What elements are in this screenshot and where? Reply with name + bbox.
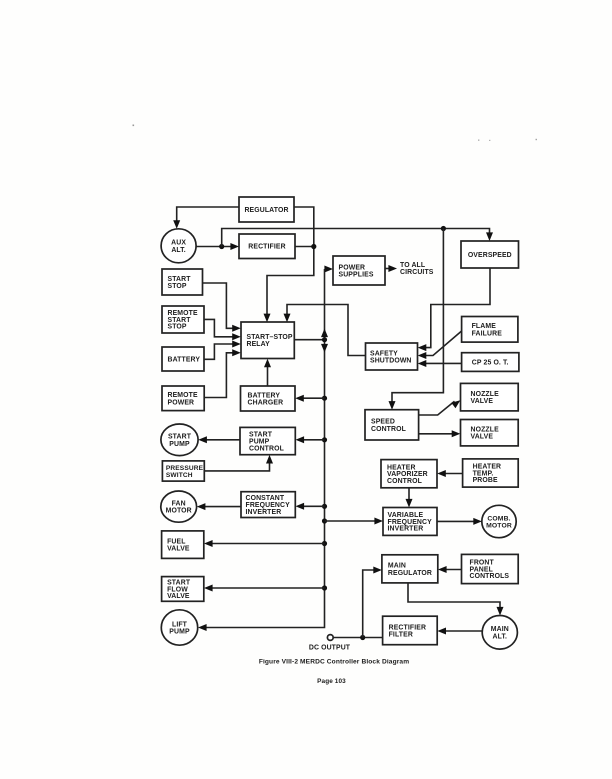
wire bus to battery charger	[298, 397, 325, 399]
block START PUMP CONTROL	[240, 427, 295, 454]
wire ac line to overspeed	[222, 229, 490, 247]
wire heater vaporizer to vfi	[408, 488, 410, 505]
arrow into safety in1	[418, 344, 427, 351]
junction bus-fuel valve junction	[322, 541, 327, 546]
arrow into relay top left	[264, 314, 271, 323]
block MAIN REGULATOR	[382, 555, 438, 583]
svg-text:MOTOR: MOTOR	[486, 522, 512, 529]
arrow into aux alt top	[173, 220, 180, 229]
terminal AUX ALT	[161, 229, 196, 263]
wire dc output line	[333, 637, 382, 639]
block CONSTANT FREQUENCY INVERTER	[241, 492, 295, 518]
svg-text:OVERSPEED: OVERSPEED	[468, 252, 512, 259]
arrow into safety in2	[418, 352, 427, 359]
terminal FAN MOTOR	[161, 491, 197, 522]
arrow into rectifier left	[230, 243, 239, 250]
label figure caption	[259, 659, 409, 666]
wire main dc bus	[201, 269, 325, 628]
label TO ALL CIRCUITS	[400, 262, 434, 276]
svg-text:START: START	[168, 434, 192, 441]
wire relay output to bus	[295, 339, 325, 341]
terminal START PUMP	[161, 424, 198, 456]
svg-text:FUEL: FUEL	[167, 539, 185, 546]
junction dc line junction	[360, 635, 365, 640]
arrow into main regulator right	[438, 566, 447, 573]
block RECTIFIER	[239, 234, 295, 259]
junction bus-relay junction	[322, 337, 327, 342]
svg-text:LIFT: LIFT	[172, 621, 188, 628]
wire speed control to nozzle valve 1	[419, 401, 455, 415]
block FRONT PANEL CONTROLS	[462, 554, 519, 583]
block REMOTE POWER	[162, 386, 204, 411]
wire bus to vfi	[325, 520, 381, 522]
junction bus-start flow valve junction	[322, 585, 327, 590]
svg-text:MAIN: MAIN	[388, 563, 406, 570]
junction bus-vfi junction	[322, 518, 327, 523]
wire ac branch to speed control	[392, 229, 443, 408]
wire rectifier output stub	[295, 246, 314, 248]
wire front panel to main regulator	[440, 569, 461, 571]
svg-text:CIRCUITS: CIRCUITS	[400, 269, 434, 276]
wire start stop to relay	[203, 283, 239, 328]
svg-text:INVERTER: INVERTER	[388, 526, 424, 533]
terminal COMB MOTOR	[482, 505, 516, 537]
arrow into battery charger right	[295, 395, 304, 402]
svg-text:SUPPLIES: SUPPLIES	[339, 272, 374, 279]
junction aux alt output branch	[219, 244, 224, 249]
svg-text:Page 103: Page 103	[317, 678, 346, 685]
scan speck 2	[478, 139, 537, 141]
svg-text:CHARGER: CHARGER	[248, 400, 284, 407]
svg-text:POWER: POWER	[168, 399, 195, 406]
arrow into fan motor	[197, 503, 206, 510]
svg-text:NOZZLE: NOZZLE	[471, 427, 500, 434]
block HEATER TEMP PROBE	[463, 459, 519, 487]
svg-text:ALT.: ALT.	[493, 633, 508, 640]
svg-text:DC OUTPUT: DC OUTPUT	[309, 645, 351, 652]
wire aux alt to rectifier	[196, 246, 236, 248]
wire probe to heater vaporizer	[440, 473, 463, 475]
block CP 25 O.T.	[462, 353, 519, 372]
svg-text:ALT.: ALT.	[171, 247, 186, 254]
svg-text:POWER: POWER	[339, 264, 366, 271]
block SAFETY SHUTDOWN	[366, 343, 418, 370]
block START FLOW VALVE	[162, 577, 204, 602]
block HEATER VAPORIZER CONTROL	[381, 460, 437, 488]
arrow into start pump control right	[296, 436, 305, 443]
wire power supplies to circuits	[385, 268, 395, 270]
arrow into vfi left	[374, 518, 383, 525]
block START-STOP RELAY	[241, 322, 294, 359]
arrow into relay in2	[232, 333, 241, 340]
arrow into heater vaporizer right	[437, 470, 446, 477]
label DC OUTPUT	[309, 645, 351, 652]
arrow into relay in3	[232, 341, 241, 348]
svg-text:SHUTDOWN: SHUTDOWN	[370, 358, 412, 365]
svg-text:TO ALL: TO ALL	[400, 262, 425, 269]
svg-text:RELAY: RELAY	[247, 341, 271, 348]
block NOZZLE VALVE 1	[461, 383, 519, 411]
arrow into start pump	[198, 436, 207, 443]
arrow into relay in4	[232, 349, 241, 356]
block REGULATOR	[239, 197, 294, 222]
wire overspeed to safety shutdown	[420, 268, 490, 348]
arrow into lift pump right	[198, 624, 207, 631]
wire bus to start flow valve	[206, 587, 324, 589]
svg-text:CONTROL: CONTROL	[387, 478, 422, 485]
svg-text:VALVE: VALVE	[167, 546, 190, 553]
arrow into comb motor	[473, 518, 482, 525]
block START STOP	[162, 269, 203, 295]
junction bus-battery charger junction	[322, 396, 327, 401]
svg-text:STOP: STOP	[168, 283, 187, 290]
svg-text:CONTROL: CONTROL	[371, 426, 406, 433]
svg-text:START–STOP: START–STOP	[247, 334, 293, 341]
scan speck 1	[133, 125, 135, 127]
svg-text:REMOTE: REMOTE	[168, 392, 198, 399]
block SPEED CONTROL	[365, 410, 419, 440]
terminal MAIN ALT	[482, 616, 517, 650]
arrow into speed control top	[389, 401, 396, 410]
svg-text:CP 25 O. T.: CP 25 O. T.	[472, 360, 509, 367]
block RECTIFIER FILTER	[383, 616, 438, 645]
wire bus to start pump control	[298, 439, 325, 441]
junction bus-cfi junction	[322, 504, 327, 509]
svg-text:CONTROL: CONTROL	[249, 445, 284, 452]
svg-text:PUMP: PUMP	[169, 629, 190, 636]
svg-text:REGULATOR: REGULATOR	[388, 570, 432, 577]
wire cp25 to safety shutdown	[420, 362, 461, 364]
svg-text:MAIN: MAIN	[491, 626, 509, 633]
wire main regulator to main alt	[408, 583, 500, 613]
arrow into safety in3	[418, 360, 427, 367]
block PRESSURE SWITCH	[162, 461, 204, 481]
wire safety shutdown to relay	[287, 305, 366, 356]
terminal DC OUTPUT	[327, 635, 333, 641]
svg-text:FLAME: FLAME	[472, 323, 497, 330]
label page number	[317, 678, 346, 685]
svg-text:VALVE: VALVE	[471, 434, 494, 441]
wire battery to relay	[204, 344, 238, 359]
arrow into relay in1	[232, 325, 241, 332]
wire bus to fuel valve	[206, 543, 324, 545]
svg-text:BATTERY: BATTERY	[168, 356, 201, 363]
svg-text:COMB.: COMB.	[487, 515, 510, 522]
block NOZZLE VALVE 2	[461, 420, 519, 446]
wire battery charger to relay	[267, 362, 269, 387]
svg-text:FILTER: FILTER	[389, 631, 413, 638]
arrow into power supplies left	[324, 266, 333, 273]
svg-text:AUX: AUX	[171, 240, 186, 247]
arrow into start pump control bottom	[266, 455, 273, 464]
arrow into main regulator left	[373, 567, 382, 574]
wire speed control to nozzle valve 2	[419, 433, 458, 435]
svg-text:PRESSURE: PRESSURE	[166, 465, 204, 472]
arrow bus up	[321, 329, 328, 338]
block BATTERY CHARGER	[241, 386, 296, 411]
terminal LIFT PUMP	[161, 610, 197, 645]
svg-text:START: START	[168, 276, 192, 283]
junction ac line branch	[441, 226, 446, 231]
svg-text:SAFETY: SAFETY	[370, 350, 398, 357]
svg-text:NOZZLE: NOZZLE	[471, 391, 500, 398]
svg-text:SWITCH: SWITCH	[166, 472, 193, 479]
svg-text:PUMP: PUMP	[169, 441, 190, 448]
arrow into start flow valve right	[204, 585, 213, 592]
wire regulator to aux alt	[177, 207, 239, 226]
svg-text:REGULATOR: REGULATOR	[244, 207, 288, 214]
arrow into main alt top	[497, 607, 504, 616]
arrow into relay bottom	[264, 359, 271, 368]
wire power supplies feed	[325, 268, 331, 270]
svg-text:MOTOR: MOTOR	[166, 508, 192, 515]
wire vfi to comb motor	[437, 520, 479, 522]
arrow into cfi right	[296, 503, 305, 510]
svg-text:VALVE: VALVE	[471, 398, 494, 405]
block OVERSPEED	[461, 241, 519, 268]
svg-text:BATTERY: BATTERY	[248, 392, 281, 399]
arrow into rectifier filter right	[437, 628, 446, 635]
svg-text:RECTIFIER: RECTIFIER	[389, 624, 426, 631]
svg-text:RECTIFIER: RECTIFIER	[248, 244, 285, 251]
wire start pump control to start pump	[201, 439, 240, 441]
svg-text:CONTROLS: CONTROLS	[470, 573, 510, 580]
wire regulator-rectifier net to relay	[267, 207, 314, 320]
svg-text:SPEED: SPEED	[371, 419, 395, 426]
svg-text:INVERTER: INVERTER	[246, 509, 282, 516]
block BATTERY	[162, 347, 204, 371]
block VARIABLE FREQUENCY INVERTER	[383, 508, 437, 536]
arrow into overspeed top	[486, 232, 493, 241]
wire remote start stop to relay	[204, 319, 238, 336]
svg-text:FAN: FAN	[172, 501, 186, 508]
arrow into nozzle valve 2	[452, 430, 461, 437]
wire bus to cfi	[298, 505, 325, 507]
block FLAME FAILURE	[462, 317, 518, 343]
wire dc to main regulator	[363, 570, 380, 638]
block POWER SUPPLIES	[333, 256, 385, 285]
svg-text:Figure VIII-2 MERDC Controller: Figure VIII-2 MERDC Controller Block Dia…	[259, 659, 409, 666]
arrow into nozzle valve 1	[451, 400, 460, 408]
arrow into fuel valve right	[204, 540, 213, 547]
svg-text:FAILURE: FAILURE	[472, 330, 503, 337]
junction bus-start pump control junction	[322, 437, 327, 442]
wire flame failure to safety shutdown	[420, 331, 461, 356]
svg-text:PROBE: PROBE	[473, 477, 498, 484]
wire cfi to fan motor	[199, 506, 241, 508]
arrow into vfi top	[406, 499, 413, 508]
block REMOTE START STOP	[162, 306, 204, 333]
block FUEL VALVE	[162, 531, 204, 559]
wire remote power to relay	[204, 353, 238, 398]
arrow to all circuits	[388, 265, 397, 272]
svg-text:VALVE: VALVE	[167, 593, 190, 600]
wire pressure switch to start pump control	[204, 458, 269, 471]
svg-text:STOP: STOP	[168, 324, 187, 331]
wire main alt to rectifier filter	[440, 630, 483, 632]
junction rectifier-regulator junction	[311, 244, 316, 249]
arrow bus down	[321, 344, 328, 353]
arrow into relay top right	[284, 314, 291, 323]
